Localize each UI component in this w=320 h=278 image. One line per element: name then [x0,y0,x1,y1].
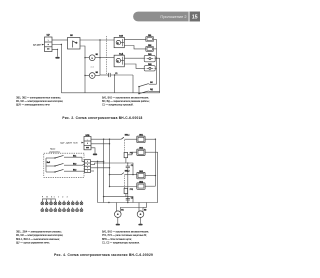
terminal strip row 2 [41,207,83,211]
wire: cap junction down [114,75,116,93]
svg-text:Рис. 2. Схема электромонтажа В: Рис. 2. Схема электромонтажа ВН-С-6-0001… [62,116,142,120]
svg-text:РУ1, РУ2 — реле тепловые защит: РУ1, РУ2 — реле тепловые защитные М; [102,233,147,237]
svg-text:Приложение 2: Приложение 2 [160,14,186,19]
rail xC 109.5 [109,139,111,186]
motor M1 (fig4) [115,203,124,218]
svg-text:ВО: ВО [150,82,153,84]
svg-text:ЩУ: ЩУ [47,34,51,36]
control box (dashed) [44,153,84,177]
wire: rail to EmD [100,57,114,59]
svg-text:ВД: ВД [150,89,153,91]
legend fig4 left [16,229,63,244]
solenoid EmV [114,37,124,47]
mid rail x100 [99,40,101,75]
svg-text:М2: М2 [96,72,98,74]
relay RU2 [124,188,128,196]
svg-text:ВК2-1, ВК2-2 — выключатели кон: ВК2-1, ВК2-2 — выключатели конечные; [16,237,60,241]
wire: X2 cell2 to rail xC [91,143,110,145]
wire: EmD to lamp4 [124,64,145,68]
svg-text:∿: ∿ [47,39,49,42]
svg-text:М2: М2 [144,210,146,212]
svg-text:ВК: ВК [70,35,73,37]
ground under X2 [91,148,97,155]
svg-text:15: 15 [192,15,198,21]
mech link 1 (dashed) [123,140,125,152]
svg-text:М: М [91,76,93,78]
valve EV3 [137,172,145,178]
svg-text:ВА1: ВА1 [73,155,76,158]
svg-text:ЩУК — электродвигатель печи: ЩУК — электродвигатель печи [16,102,50,106]
motor M2 [85,72,100,79]
svg-text:РУ1: РУ1 [130,153,133,155]
right rail x157.7 [145,152,158,202]
wire: node row under relay2 [104,197,133,203]
svg-text:Пульт: Пульт [50,149,55,151]
wire: top rail X1 to switch BK [52,39,68,41]
switch SA2 [46,163,85,167]
wire: BK aux down rail x85 [80,46,85,93]
wire: EmV to lamp1 [124,38,146,40]
terminal strip comb [42,199,55,201]
svg-text:С1 — конденсатор пусковой.: С1 — конденсатор пусковой. [102,102,134,106]
wire: X3 cell1 to rail xB [91,160,104,162]
svg-text:С2: С2 [131,198,133,200]
svg-text:Рис. 4. Схема электромонтажа з: Рис. 4. Схема электромонтажа заслонки ВН… [54,253,153,257]
wire: cap right down [132,75,134,93]
feed label ЩУ-ЦБН with arrow [61,141,84,144]
feed label ЩУ-ЦБН with arrow [33,44,44,47]
connector X3 [85,160,91,173]
svg-text:ВК2-1: ВК2-1 [125,135,130,137]
svg-text:С1, С2 — конденсаторы пусковые: С1, С2 — конденсаторы пусковые. [102,240,140,244]
svg-text:ВА3: ВА3 [73,169,76,172]
switch BK box [68,38,81,50]
svg-text:М1: М1 [121,210,123,212]
wire: node row under relay1 [104,163,133,175]
ground under X1 [52,49,60,59]
svg-text:М1, М2 — электродвигатели вент: М1, М2 — электродвигатели вентиляторов; [16,233,63,237]
svg-text:ВПБ — блок питания щита;: ВПБ — блок питания щита; [102,237,132,241]
valve EV2 [137,149,145,155]
wire: X1 neutral to left rail [52,45,61,93]
wire: X3 cell3 to rail xC [91,167,110,169]
contact VK2-2 [109,173,137,176]
svg-text:ЩУ-ЦБН №8: ЩУ-ЦБН №8 [61,141,79,144]
legend fig2 left [16,95,63,107]
svg-text:ЭВ1...ЭВ4 — электромагнитные к: ЭВ1...ЭВ4 — электромагнитные клапаны; [16,229,62,233]
svg-text:ВА2: ВА2 [73,163,76,166]
bottom bus fig4 [98,202,158,204]
starter PM2 [144,66,155,71]
terminal block X1 [45,37,53,52]
svg-text:ЩУ — щиток управления печи;: ЩУ — щиток управления печи; [16,240,50,244]
ground under M2 [138,218,142,226]
svg-text:М: М [91,58,93,60]
wire: rail xC to EV4 [110,186,137,188]
motor M2 (fig4) [137,203,146,218]
starter PM1 [144,55,155,61]
wire: link to bus [146,203,148,208]
capacitor C1 (fig4) [126,162,133,202]
mech link 2 (dashed) [123,175,125,188]
capacitor C1 [100,73,133,77]
capacitor C2 (fig4) [126,196,133,203]
wire: motors top link [120,208,143,212]
svg-text:ЩУ-ЦБН: ЩУ-ЦБН [33,44,41,46]
relay RU1 [124,152,128,163]
switch VD [138,91,159,94]
wire: X2 phase to contact VK2-1 [91,138,121,140]
wire: EmD to lamp3 [124,57,145,59]
wire: BK to EmV with junction [80,39,114,41]
switch VO [138,84,156,93]
svg-text:Р В Х1 1 2 3: Р В Х1 1 2 3 [42,196,69,198]
legend fig2 right [102,95,150,107]
svg-text:С1: С1 [131,165,133,167]
lamp HL1 [146,37,154,42]
motor M1 [85,54,100,61]
dashed boundary [106,36,108,74]
header bar [133,12,200,22]
lamp HL2 [146,46,154,51]
contact VK2-1 [121,137,137,139]
solenoid EmD [114,55,124,67]
terminal strip row 1 [41,201,83,205]
svg-text:ВА1, ВА2 — выключатели автомат: ВА1, ВА2 — выключатели автоматические; [102,229,149,233]
switch SA1 [46,155,85,162]
right rail R1 [154,39,160,84]
right rail R2 [159,58,161,93]
rail xA 97.5 [97,161,99,202]
rail xB 103.6 [103,139,105,202]
svg-text:сб.1: сб.1 [91,66,94,68]
svg-text:М1: М1 [96,54,98,56]
terminal block X2 [84,137,91,150]
svg-text:∿: ∿ [87,138,89,141]
wire: X3 cell2 to relay1 bottom node [91,163,104,165]
switch SA3 [46,169,85,173]
wire: X3 cell4 stub [91,170,95,172]
valve EV1 [137,136,145,143]
svg-text:ВК2-2: ВК2-2 [125,171,130,173]
svg-text:ВкЛ: ВкЛ [47,162,51,164]
svg-text:С1: С1 [115,73,117,75]
wire: relay1 to EV2 [128,152,137,155]
ground under M1 [116,218,120,226]
wire: EmV to lamp2 [124,46,146,49]
right rail x155.4 [145,139,156,187]
legend fig4 right [102,229,149,244]
common rail in control box [45,158,47,172]
valve EV4 [137,183,145,189]
svg-text:РУ2: РУ2 [130,189,133,191]
bottom rail fig2 [61,92,159,94]
